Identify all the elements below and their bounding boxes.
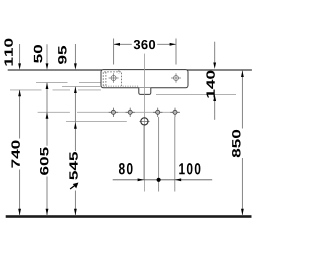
basin outline <box>101 70 188 88</box>
row hole 1 <box>109 108 118 117</box>
dashed inner edge <box>105 72 107 86</box>
95 level line <box>62 86 101 88</box>
dotted hidden bowl line <box>104 85 140 87</box>
centre line <box>143 54 145 192</box>
drain cross arm <box>139 121 149 123</box>
wall rim line <box>8 69 252 71</box>
adjustable arrow <box>70 186 75 189</box>
50 level line <box>36 82 68 84</box>
dim 740 <box>11 90 21 215</box>
dashed platform step <box>118 70 120 73</box>
dim 80 / 100 <box>113 117 213 192</box>
drain height line 545 level <box>66 121 127 123</box>
dim 850 <box>232 71 244 216</box>
drain circle <box>141 118 148 125</box>
row hole 4 <box>170 108 179 117</box>
fixing row line 605 level <box>38 111 70 113</box>
mounting hole left <box>109 73 119 83</box>
siphon cover <box>139 88 151 95</box>
dim 95 <box>58 44 77 70</box>
110 / 740 level line <box>10 89 42 91</box>
row hole 3 <box>153 108 162 117</box>
dim 545 <box>69 87 78 216</box>
140 bottom level line <box>156 94 236 96</box>
floor line <box>6 215 252 218</box>
dim 605 <box>40 83 49 216</box>
dim 360 <box>114 39 176 65</box>
dim 50 <box>34 44 49 70</box>
dim 110 <box>4 39 21 70</box>
dashed tap platform <box>103 72 121 86</box>
row hole 2 <box>126 108 135 117</box>
mounting hole right <box>171 73 181 83</box>
dim 140 <box>206 42 216 120</box>
